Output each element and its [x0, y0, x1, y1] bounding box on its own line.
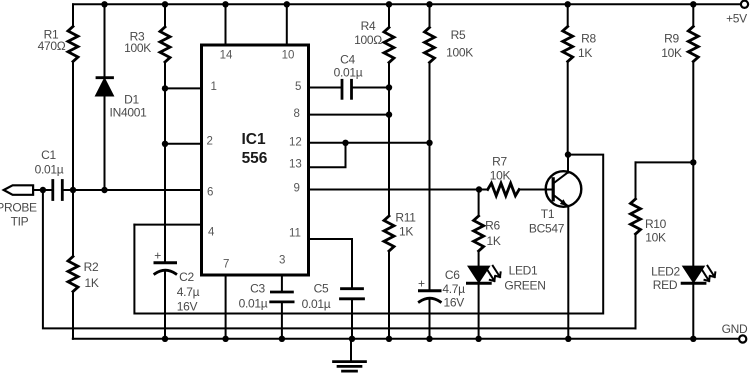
svg-text:14: 14 — [220, 50, 233, 62]
svg-text:11: 11 — [289, 228, 301, 240]
junction R1 probe row — [70, 187, 76, 193]
node PROBE TIP label — [0, 201, 37, 229]
svg-text:16V: 16V — [443, 296, 464, 310]
svg-text:PROBE: PROBE — [0, 201, 37, 215]
junction pin 3 gnd — [279, 336, 285, 342]
transistor Q1 BC547 — [529, 155, 581, 339]
svg-text:8: 8 — [294, 108, 300, 120]
junction LED2 gnd — [690, 336, 696, 342]
svg-text:R4: R4 — [361, 19, 376, 33]
svg-text:RED: RED — [653, 278, 678, 292]
wire pin 5 — [309, 87, 342, 89]
junction D1 top rail — [101, 1, 107, 7]
svg-text:R10: R10 — [645, 217, 667, 231]
svg-text:470Ω: 470Ω — [38, 39, 66, 53]
diode D1 — [96, 4, 147, 190]
junction C2 gnd rail — [162, 336, 168, 342]
svg-text:2: 2 — [207, 136, 213, 148]
capacitor C4 — [334, 53, 363, 99]
wire pin 9 — [309, 189, 488, 191]
LED1 — [468, 264, 546, 339]
svg-text:10K: 10K — [661, 46, 682, 60]
junction pin 10 rail — [284, 1, 290, 7]
svg-text:TIP: TIP — [11, 215, 29, 229]
junction LED1 gnd — [475, 336, 481, 342]
junction pin 13 pin 12 — [342, 140, 348, 146]
svg-text:+: + — [154, 249, 161, 263]
svg-text:0.01µ: 0.01µ — [302, 297, 331, 311]
svg-text:10: 10 — [282, 50, 295, 62]
svg-text:C3: C3 — [250, 282, 265, 296]
svg-text:LED2: LED2 — [651, 265, 680, 279]
wire R7 to base — [519, 189, 552, 191]
wire pin 3 upper — [281, 275, 283, 292]
junction C6 gnd — [426, 336, 432, 342]
svg-text:3: 3 — [279, 255, 285, 267]
resistor R1 — [38, 4, 78, 190]
wire pin 10 — [286, 4, 288, 45]
svg-text:5: 5 — [295, 81, 301, 93]
junction collector node — [565, 151, 571, 157]
svg-text:R6: R6 — [485, 219, 500, 233]
svg-text:IC1: IC1 — [241, 131, 266, 148]
+5V terminal — [741, 1, 748, 8]
svg-text:T1: T1 — [541, 207, 555, 221]
wire pin 12 — [309, 142, 430, 144]
svg-text:R11: R11 — [395, 211, 416, 225]
svg-text:IN4001: IN4001 — [110, 106, 148, 120]
svg-text:R9: R9 — [664, 31, 679, 45]
ground symbol — [334, 339, 366, 371]
capacitor C5 — [302, 282, 364, 312]
wire pin 4 — [134, 224, 201, 226]
resistor R3 — [124, 4, 170, 262]
LED2 — [651, 162, 715, 338]
wire pin 14 — [225, 4, 227, 45]
junction R5 rail — [426, 1, 432, 7]
junction pin 12 R5 — [426, 140, 432, 146]
svg-text:1K: 1K — [486, 234, 500, 248]
svg-text:1K: 1K — [84, 276, 98, 290]
junction pin 8 R4 — [386, 111, 392, 117]
svg-text:100K: 100K — [124, 41, 151, 55]
svg-text:7: 7 — [223, 259, 229, 271]
wire pin 1 — [165, 87, 202, 89]
junction C5 gnd — [349, 336, 355, 342]
svg-text:1: 1 — [211, 81, 217, 93]
resistor R11 — [384, 115, 416, 339]
IC1 label — [241, 131, 267, 167]
wire node to R10 — [636, 161, 694, 163]
wire probe node down branch — [43, 190, 636, 328]
svg-text:100Ω: 100Ω — [354, 33, 382, 47]
wire pin 7 — [225, 275, 227, 339]
svg-text:R8: R8 — [581, 31, 596, 45]
svg-text:+5V: +5V — [726, 12, 747, 26]
resistor R10 — [631, 162, 667, 328]
GND terminal — [739, 335, 746, 342]
junction pin 2 node — [162, 141, 168, 147]
junction D1 probe row — [101, 187, 107, 193]
svg-text:R7: R7 — [492, 155, 507, 169]
svg-text:16V: 16V — [177, 300, 198, 314]
junction R8 rail — [565, 1, 571, 7]
junction R4 rail — [386, 1, 392, 7]
junction pin 5 R4 — [386, 84, 392, 90]
wire probe tip to C1 — [33, 189, 52, 191]
svg-text:1K: 1K — [399, 225, 413, 239]
junction probe node — [40, 187, 46, 193]
junction R9 R10 LED2 node — [690, 159, 696, 165]
junction pin 14 rail — [222, 1, 228, 7]
svg-text:12: 12 — [289, 137, 302, 149]
svg-text:4: 4 — [208, 227, 215, 239]
wire pin 11 — [309, 239, 353, 289]
svg-text:0.01µ: 0.01µ — [35, 163, 64, 177]
junction pin 7 gnd — [222, 336, 228, 342]
svg-text:C6: C6 — [445, 268, 460, 282]
capacitor C3 — [239, 282, 293, 311]
svg-text:+: + — [418, 277, 425, 291]
resistor R6 — [474, 190, 501, 267]
svg-text:556: 556 — [242, 150, 268, 167]
svg-text:C2: C2 — [179, 270, 194, 284]
wire top +5V rail — [73, 3, 741, 5]
svg-text:100K: 100K — [446, 45, 473, 59]
svg-text:C5: C5 — [314, 282, 329, 296]
svg-text:10K: 10K — [490, 169, 511, 183]
svg-text:D1: D1 — [124, 92, 139, 106]
svg-text:4.7µ: 4.7µ — [177, 285, 200, 299]
wire C5 to gnd — [351, 299, 353, 339]
svg-text:13: 13 — [289, 159, 302, 171]
wire collector to pin 4 loop — [134, 155, 603, 314]
wire pin 8 — [309, 114, 390, 116]
IC U1 556 box — [202, 45, 309, 275]
svg-text:1K: 1K — [578, 46, 592, 60]
resistor R8 — [563, 4, 597, 154]
junction R3 top rail — [162, 1, 168, 7]
wire C1 to pin 6 — [62, 189, 200, 191]
capacitor C6 — [418, 268, 465, 339]
resistor R4 — [354, 4, 394, 114]
svg-text:9: 9 — [294, 183, 300, 195]
svg-text:0.01µ: 0.01µ — [239, 297, 268, 311]
svg-text:GND: GND — [722, 322, 748, 336]
wire bottom GND rail — [73, 338, 739, 340]
wire pin 2 — [165, 143, 202, 145]
junction pin 1 node — [162, 85, 168, 91]
svg-text:10K: 10K — [645, 231, 666, 245]
svg-text:BC547: BC547 — [529, 222, 565, 236]
resistor R9 — [661, 4, 698, 162]
svg-text:C1: C1 — [41, 148, 56, 162]
probe tip symbol — [4, 185, 33, 195]
wire C4 to R4 column — [352, 87, 390, 89]
junction R9 rail — [690, 1, 696, 7]
svg-text:6: 6 — [207, 187, 213, 199]
resistor R5 — [425, 4, 474, 290]
wire pin 3 lower — [281, 302, 283, 339]
svg-text:0.01µ: 0.01µ — [334, 66, 363, 80]
capacitor C1 — [35, 148, 64, 200]
svg-text:GREEN: GREEN — [504, 279, 545, 293]
svg-text:LED1: LED1 — [509, 264, 538, 278]
resistor R2 — [68, 190, 99, 339]
junction R7 R6 pin9 — [476, 186, 482, 192]
svg-text:C4: C4 — [340, 53, 355, 67]
junction R11 gnd — [386, 336, 392, 342]
wire pin 13 — [309, 143, 346, 168]
resistor R7 — [488, 155, 519, 196]
svg-text:R5: R5 — [451, 28, 466, 42]
junction emitter gnd — [565, 336, 571, 342]
capacitor C2 — [154, 249, 199, 339]
svg-text:R2: R2 — [84, 260, 99, 274]
svg-text:4.7µ: 4.7µ — [442, 282, 465, 296]
